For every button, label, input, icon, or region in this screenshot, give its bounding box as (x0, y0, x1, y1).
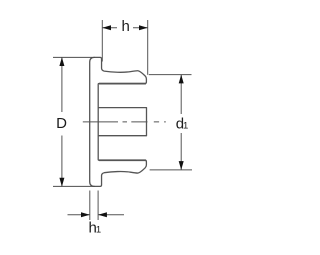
dimension h: dimension line (102, 27, 147, 29)
dimension D: top arrowhead (59, 57, 64, 66)
dimension D: bottom arrowhead (59, 178, 64, 187)
dimension d1: bottom extension line (150, 169, 192, 171)
dimension h: right extension line (147, 20, 149, 75)
dimension h1: left extension line (89, 191, 91, 221)
dimension D: bottom extension line (53, 185, 95, 187)
bottom lip upper line (99, 159, 146, 161)
hub (inner plug body) rectangle edges (98, 108, 146, 136)
dimension d1: dimension line (180, 75, 182, 170)
svg-text:D: D (56, 115, 67, 132)
svg-text:h: h (122, 18, 130, 35)
dimension h1: left arrowhead (81, 212, 90, 217)
dimension h: left extension line (101, 20, 103, 62)
dimension h1: dimension line with outside tails (68, 214, 125, 216)
dimension d1: top extension line (149, 74, 192, 76)
dimension d1: bottom arrowhead (179, 161, 184, 170)
cap outer silhouette (flange disc, step, top and bottom sealing lips) (90, 57, 147, 186)
centerline (dash-dot axis) (83, 121, 166, 123)
dimension h: right arrowhead (139, 25, 148, 30)
dimension h1: right arrowhead (98, 212, 107, 217)
dimension D: dimension line (61, 57, 63, 186)
dimension d1: top arrowhead (179, 75, 184, 84)
dimension D: top extension line (53, 56, 95, 58)
dimension h1: right extension line (97, 191, 99, 221)
top lip underside line (99, 83, 146, 85)
dimension h: left arrowhead (102, 25, 111, 30)
